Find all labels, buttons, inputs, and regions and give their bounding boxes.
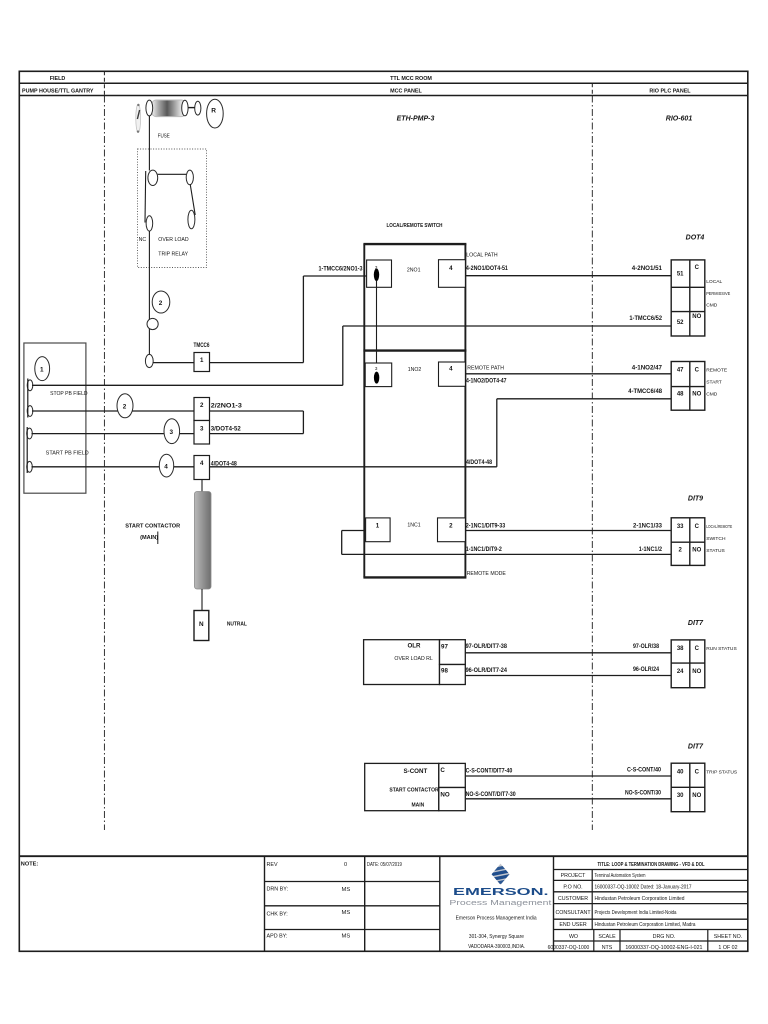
svg-text:C-S-CONT/DIT7-40: C-S-CONT/DIT7-40 <box>466 767 513 774</box>
svg-text:TTL MCC ROOM: TTL MCC ROOM <box>390 76 432 82</box>
wire C start PB to TMCC6-3 <box>32 433 195 435</box>
svg-text:DRG NO.: DRG NO. <box>653 934 676 940</box>
text cursor mark <box>157 532 159 545</box>
wire NO-S-CONT/DIT7-30 <box>465 798 671 800</box>
overload relay dotted enclosure <box>138 149 207 268</box>
svg-text:RUN STATUS: RUN STATUS <box>706 646 737 652</box>
header divider mcc/rio <box>591 83 593 95</box>
S-CONT terminal C box <box>439 763 466 787</box>
terminal TMCC6-2 <box>194 398 210 421</box>
svg-text:DATE: 05/07/2019: DATE: 05/07/2019 <box>367 862 402 868</box>
svg-text:C: C <box>440 767 445 774</box>
neutral terminal N <box>194 611 209 641</box>
OLR box <box>364 640 440 685</box>
svg-text:48: 48 <box>677 392 684 398</box>
wire coil to neutral <box>201 589 203 611</box>
wire end lug <box>145 354 153 367</box>
svg-text:4: 4 <box>449 366 453 373</box>
svg-text:FIELD: FIELD <box>50 76 66 82</box>
svg-text:2: 2 <box>449 523 453 530</box>
riser to 2NO1 feed <box>302 276 304 363</box>
svg-text:4-2NO1/DOT4-51: 4-2NO1/DOT4-51 <box>466 265 508 272</box>
svg-text:CUSTOMER: CUSTOMER <box>558 896 588 902</box>
1NO2 contact box <box>365 363 392 387</box>
svg-text:TRIP STATUS: TRIP STATUS <box>706 770 738 776</box>
svg-text:CONSULTANT: CONSULTANT <box>555 910 591 916</box>
start PB bar <box>26 427 28 473</box>
svg-text:6000337-OQ-1000: 6000337-OQ-1000 <box>548 945 590 951</box>
svg-text:OLR: OLR <box>407 643 421 650</box>
svg-text:1-1NC1/DIT9-2: 1-1NC1/DIT9-2 <box>466 546 502 553</box>
svg-text:C: C <box>695 770 700 776</box>
1NC1 terminal 2 box <box>438 518 466 542</box>
DOT4 local block <box>671 260 705 336</box>
svg-text:96-OLR/DIT7-24: 96-OLR/DIT7-24 <box>466 667 508 674</box>
svg-text:Hindustan Petroleum Corporatio: Hindustan Petroleum Corporation Limited,… <box>595 922 696 928</box>
wire TMCC6-1 to riser <box>210 362 304 364</box>
terminal TMCC6-4 <box>194 456 210 480</box>
svg-text:DOT4: DOT4 <box>686 235 705 242</box>
svg-text:C: C <box>695 646 700 652</box>
svg-text:3: 3 <box>170 429 174 436</box>
svg-text:2/2NO1-3: 2/2NO1-3 <box>211 402 243 409</box>
wire D riser <box>496 399 498 467</box>
svg-text:30: 30 <box>677 793 684 799</box>
svg-text:1NC1: 1NC1 <box>407 523 420 529</box>
cable tag 4 on wire D <box>159 454 173 477</box>
wire A stop PB to riser <box>32 384 343 386</box>
header divider field/mcc <box>103 71 105 95</box>
svg-text:PUMP HOUSE/TTL GANTRY: PUMP HOUSE/TTL GANTRY <box>22 88 94 94</box>
svg-text:RIO-601: RIO-601 <box>666 116 693 123</box>
indicator lamp R <box>207 99 224 128</box>
cable tag 2 <box>152 291 170 313</box>
svg-text:16000337-OQ-10002 Dated: 18-Ja: 16000337-OQ-10002 Dated: 18-January-2017 <box>595 885 692 891</box>
svg-text:DIT9: DIT9 <box>688 496 703 503</box>
svg-text:NC: NC <box>139 237 147 243</box>
OL NC contact lower terminal <box>146 216 153 231</box>
OL right contact blade <box>190 184 195 215</box>
OLR terminal 98 box <box>440 665 466 685</box>
supply tap symbol <box>136 104 141 133</box>
switch pole link <box>376 281 378 371</box>
svg-text:LOCAL PATH: LOCAL PATH <box>466 253 498 259</box>
wire 2-1NC1/DIT9-33 <box>465 530 671 532</box>
svg-text:97-OLR/DIT7-38: 97-OLR/DIT7-38 <box>466 643 508 650</box>
svg-text:CMD: CMD <box>706 303 718 309</box>
svg-text:C: C <box>695 265 700 271</box>
svg-text:2: 2 <box>200 402 204 409</box>
field junction box <box>24 343 86 493</box>
title block frame <box>19 856 748 951</box>
2NO1 contact box <box>367 260 392 287</box>
svg-text:1 OF 02: 1 OF 02 <box>718 945 737 951</box>
svg-text:97: 97 <box>441 643 448 650</box>
svg-text:CHK BY:: CHK BY: <box>267 912 288 918</box>
svg-text:97-OLR/38: 97-OLR/38 <box>633 643 659 650</box>
zone separator dash-dot right <box>591 96 593 831</box>
svg-text:NUTRAL: NUTRAL <box>227 622 248 628</box>
start contactor coil <box>195 492 212 590</box>
svg-text:1: 1 <box>40 366 44 373</box>
svg-text:REMOTE: REMOTE <box>706 368 728 374</box>
svg-text:Terminal Automation System: Terminal Automation System <box>595 873 646 879</box>
DIT9 block <box>671 518 705 566</box>
1NC1 feed riser <box>341 531 343 555</box>
svg-text:MS: MS <box>342 887 351 893</box>
svg-text:NO: NO <box>692 548 701 554</box>
wire 1-TMCC6/52 <box>343 325 671 327</box>
cable tag 3 on wire C <box>164 419 180 444</box>
svg-text:NO: NO <box>692 314 701 320</box>
2NO1 terminal 4 box <box>439 260 466 288</box>
DIT7 trip block <box>671 763 705 812</box>
svg-text:NO: NO <box>440 791 449 798</box>
svg-text:Hindustan Petroleum Corporatio: Hindustan Petroleum Corporation Limited <box>595 896 685 902</box>
DOT4 remote block <box>671 362 705 411</box>
svg-text:2: 2 <box>159 300 163 307</box>
terminal TMCC6-3 <box>194 421 210 445</box>
wire 97-OLR/DIT7-38 <box>465 652 671 654</box>
svg-text:MS: MS <box>342 934 351 940</box>
svg-text:16000337-OQ-10002-ENG-I-021: 16000337-OQ-10002-ENG-I-021 <box>625 945 702 951</box>
svg-text:CMD: CMD <box>706 392 718 398</box>
DIT7 run block <box>671 640 705 688</box>
wire D panel side <box>210 466 497 468</box>
svg-text:C: C <box>695 368 700 374</box>
wire 4-TMCC6/48 <box>497 398 671 400</box>
stop PB terminal upper <box>27 380 33 391</box>
note LOCAL/REMOTE SWITCH STATUS <box>706 524 732 554</box>
wire into 1NC1 terminal 1 <box>342 530 366 532</box>
svg-text:1-1NC1/2: 1-1NC1/2 <box>639 546 663 553</box>
svg-text:2-1NC1/33: 2-1NC1/33 <box>633 523 663 530</box>
svg-text:LOCAL/REMOTE SWITCH: LOCAL/REMOTE SWITCH <box>387 223 443 229</box>
header row line 1 <box>19 82 748 84</box>
wire A riser <box>342 326 344 385</box>
note LOCAL PERMISSIVE CMD <box>706 279 731 309</box>
svg-text:1-TMCC6/2NO1-3: 1-TMCC6/2NO1-3 <box>319 265 363 272</box>
stop PB bar <box>27 379 29 418</box>
svg-text:PERMISSIVE: PERMISSIVE <box>706 291 731 297</box>
Emerson diamond logo <box>490 864 510 886</box>
OL NC contact blade <box>144 171 147 223</box>
svg-text:301-304, Synergy Square: 301-304, Synergy Square <box>469 934 524 940</box>
svg-text:40: 40 <box>677 770 684 776</box>
wire 1-TMCC6/2NO1-3 <box>303 275 366 277</box>
svg-text:APD BY:: APD BY: <box>267 934 288 940</box>
svg-text:REV: REV <box>267 862 278 868</box>
svg-text:LOCAL/REMOTE: LOCAL/REMOTE <box>706 524 732 530</box>
OLR terminal 97 box <box>440 640 466 665</box>
svg-text:1: 1 <box>200 357 204 364</box>
wire lug to TMCC6 terminal 1 <box>153 362 194 364</box>
svg-text:START CONTACTOR: START CONTACTOR <box>125 524 180 530</box>
S-CONT terminal NO box <box>439 788 466 811</box>
wire 96-OLR/DIT7-24 <box>465 675 671 677</box>
svg-text:FUSE: FUSE <box>158 134 170 140</box>
svg-text:NO: NO <box>692 793 701 799</box>
svg-text:START: START <box>706 380 722 386</box>
wire C panel side <box>210 433 304 435</box>
svg-text:N: N <box>199 621 204 628</box>
svg-text:96-OLR/24: 96-OLR/24 <box>633 666 659 673</box>
svg-text:OVER LOAD: OVER LOAD <box>158 237 189 243</box>
svg-text:REMOTE PATH: REMOTE PATH <box>467 366 504 372</box>
svg-text:SWITCH: SWITCH <box>706 536 726 542</box>
zone separator dash-dot left <box>103 96 105 831</box>
svg-text:98: 98 <box>441 668 448 675</box>
contact lug <box>195 101 201 115</box>
svg-text:2-1NC1/DIT9-33: 2-1NC1/DIT9-33 <box>466 523 506 530</box>
svg-text:END USER: END USER <box>559 922 587 928</box>
svg-text:4-1NO2/DOT4-47: 4-1NO2/DOT4-47 <box>466 377 507 384</box>
svg-text:24: 24 <box>677 669 684 675</box>
wire B stop PB to TMCC6-2 <box>32 410 194 412</box>
svg-text:33: 33 <box>677 524 684 530</box>
svg-text:WO: WO <box>569 934 578 940</box>
svg-text:R: R <box>211 108 216 115</box>
svg-text:DRN BY:: DRN BY: <box>267 887 289 893</box>
svg-text:START PB FIELD: START PB FIELD <box>46 451 89 457</box>
wire 4-1NO2/DOT4-47 <box>465 373 671 375</box>
svg-text:TRIP RELAY: TRIP RELAY <box>158 252 188 258</box>
wire D start PB to TMCC6-4 <box>32 466 195 468</box>
svg-text:RIO PLC PANEL: RIO PLC PANEL <box>649 88 691 94</box>
svg-text:Process Management: Process Management <box>449 898 552 907</box>
svg-text:1-TMCC6/52: 1-TMCC6/52 <box>629 315 662 322</box>
wire fuse to contact <box>188 107 195 109</box>
terminal circle on wire <box>147 318 158 329</box>
start PB terminal lower <box>27 461 33 472</box>
svg-text:1NO2: 1NO2 <box>408 367 422 373</box>
svg-text:STOP PB FIELD: STOP PB FIELD <box>50 391 88 397</box>
svg-text:NOTE:: NOTE: <box>21 862 39 868</box>
1NC1 terminal 1 box <box>366 518 391 542</box>
terminal TMCC6-1 <box>194 353 210 372</box>
svg-text:52: 52 <box>677 320 684 326</box>
svg-text:SCALE: SCALE <box>598 934 616 940</box>
svg-text:VADODARA-390003,INDIA.: VADODARA-390003,INDIA. <box>468 944 525 950</box>
svg-text:4: 4 <box>200 460 204 467</box>
svg-text:REMOTE MODE: REMOTE MODE <box>467 571 507 577</box>
svg-text:47: 47 <box>677 368 684 374</box>
wire 1-1NC1/DIT9-2 <box>342 553 672 555</box>
svg-text:MS: MS <box>342 910 351 916</box>
stop PB terminal lower <box>27 406 33 417</box>
OL trip linkage wire <box>158 173 187 175</box>
svg-text:NTS: NTS <box>602 945 613 951</box>
svg-text:NO: NO <box>692 669 701 675</box>
svg-text:C: C <box>695 524 700 530</box>
wire OL down to lug <box>148 231 150 355</box>
svg-text:2: 2 <box>123 404 127 411</box>
1NO2 terminal 4 box <box>439 362 466 386</box>
svg-text:MAIN: MAIN <box>412 802 425 808</box>
svg-text:1: 1 <box>376 523 380 530</box>
OL NC contact upper terminal <box>148 170 158 185</box>
svg-text:Emerson Process Management Ind: Emerson Process Management India <box>456 915 537 921</box>
wire C-S-CONT/DIT7-40 <box>465 775 671 777</box>
cable tag 2 on wire B <box>117 394 133 418</box>
wire TMCC6-4 down to contactor <box>201 480 203 492</box>
svg-text:4: 4 <box>449 265 453 272</box>
svg-text:TITLE: LOOP & TERMINATION DRAW: TITLE: LOOP & TERMINATION DRAWING - VFD … <box>598 862 705 868</box>
svg-text:51: 51 <box>677 272 684 278</box>
svg-text:0: 0 <box>344 862 347 868</box>
svg-text:NO: NO <box>692 392 701 398</box>
svg-text:OVER LOAD RL: OVER LOAD RL <box>394 656 432 662</box>
svg-text:P.O NO.: P.O NO. <box>563 885 582 891</box>
svg-text:LOCAL: LOCAL <box>706 279 722 285</box>
svg-text:STATUS: STATUS <box>706 548 725 554</box>
svg-text:NO-S-CONT/DIT7-30: NO-S-CONT/DIT7-30 <box>466 791 517 798</box>
S-CONT box <box>365 763 439 810</box>
svg-text:C-S-CONT/40: C-S-CONT/40 <box>627 767 661 774</box>
svg-text:NO-S-CONT/30: NO-S-CONT/30 <box>625 790 661 797</box>
svg-text:Projects Development India Lim: Projects Development India Limited-Noida <box>595 910 677 916</box>
2NO1 contact dot <box>374 269 379 282</box>
svg-text:3: 3 <box>375 366 378 371</box>
svg-text:S-CONT: S-CONT <box>404 768 428 775</box>
svg-text:EMERSON.: EMERSON. <box>453 886 549 898</box>
svg-text:DIT7: DIT7 <box>688 744 704 751</box>
svg-text:4-TMCC6/48: 4-TMCC6/48 <box>628 388 662 395</box>
svg-text:(MAIN): (MAIN) <box>140 535 158 541</box>
svg-text:4-1NO2/47: 4-1NO2/47 <box>632 365 663 372</box>
svg-text:2: 2 <box>679 548 683 554</box>
svg-text:ETH-PMP-3: ETH-PMP-3 <box>397 116 435 123</box>
svg-text:4-2NO1/51: 4-2NO1/51 <box>632 265 663 272</box>
start PB terminal upper <box>27 428 33 439</box>
OL right contact lower terminal <box>188 210 195 229</box>
1NO2 contact dot <box>374 372 379 384</box>
OL right contact upper terminal <box>186 170 193 185</box>
wire 4-2NO1/DOT4-51 <box>465 275 671 277</box>
svg-text:TMCC6: TMCC6 <box>194 342 210 349</box>
fuse F body <box>146 100 188 117</box>
svg-text:38: 38 <box>677 646 684 652</box>
svg-text:4/DOT4-48: 4/DOT4-48 <box>466 459 492 466</box>
svg-text:3/DOT4-52: 3/DOT4-52 <box>211 426 242 433</box>
svg-text:START CONTACTOR: START CONTACTOR <box>389 787 439 793</box>
wire B panel side <box>210 410 304 412</box>
wire B/C jumper riser <box>302 411 304 434</box>
header row line 2 <box>19 95 748 97</box>
local/remote switch enclosure <box>363 244 466 577</box>
svg-text:4: 4 <box>164 463 168 470</box>
svg-text:SHEET NO.: SHEET NO. <box>714 934 742 940</box>
cable tag 1 <box>35 357 50 381</box>
svg-text:2NO1: 2NO1 <box>407 267 421 273</box>
svg-text:MCC PANEL: MCC PANEL <box>390 88 422 94</box>
note REMOTE START CMD <box>706 368 728 398</box>
svg-text:PROJECT: PROJECT <box>561 873 586 879</box>
wire fuse down <box>148 116 150 171</box>
svg-text:DIT7: DIT7 <box>688 620 704 627</box>
svg-text:3: 3 <box>200 425 204 432</box>
